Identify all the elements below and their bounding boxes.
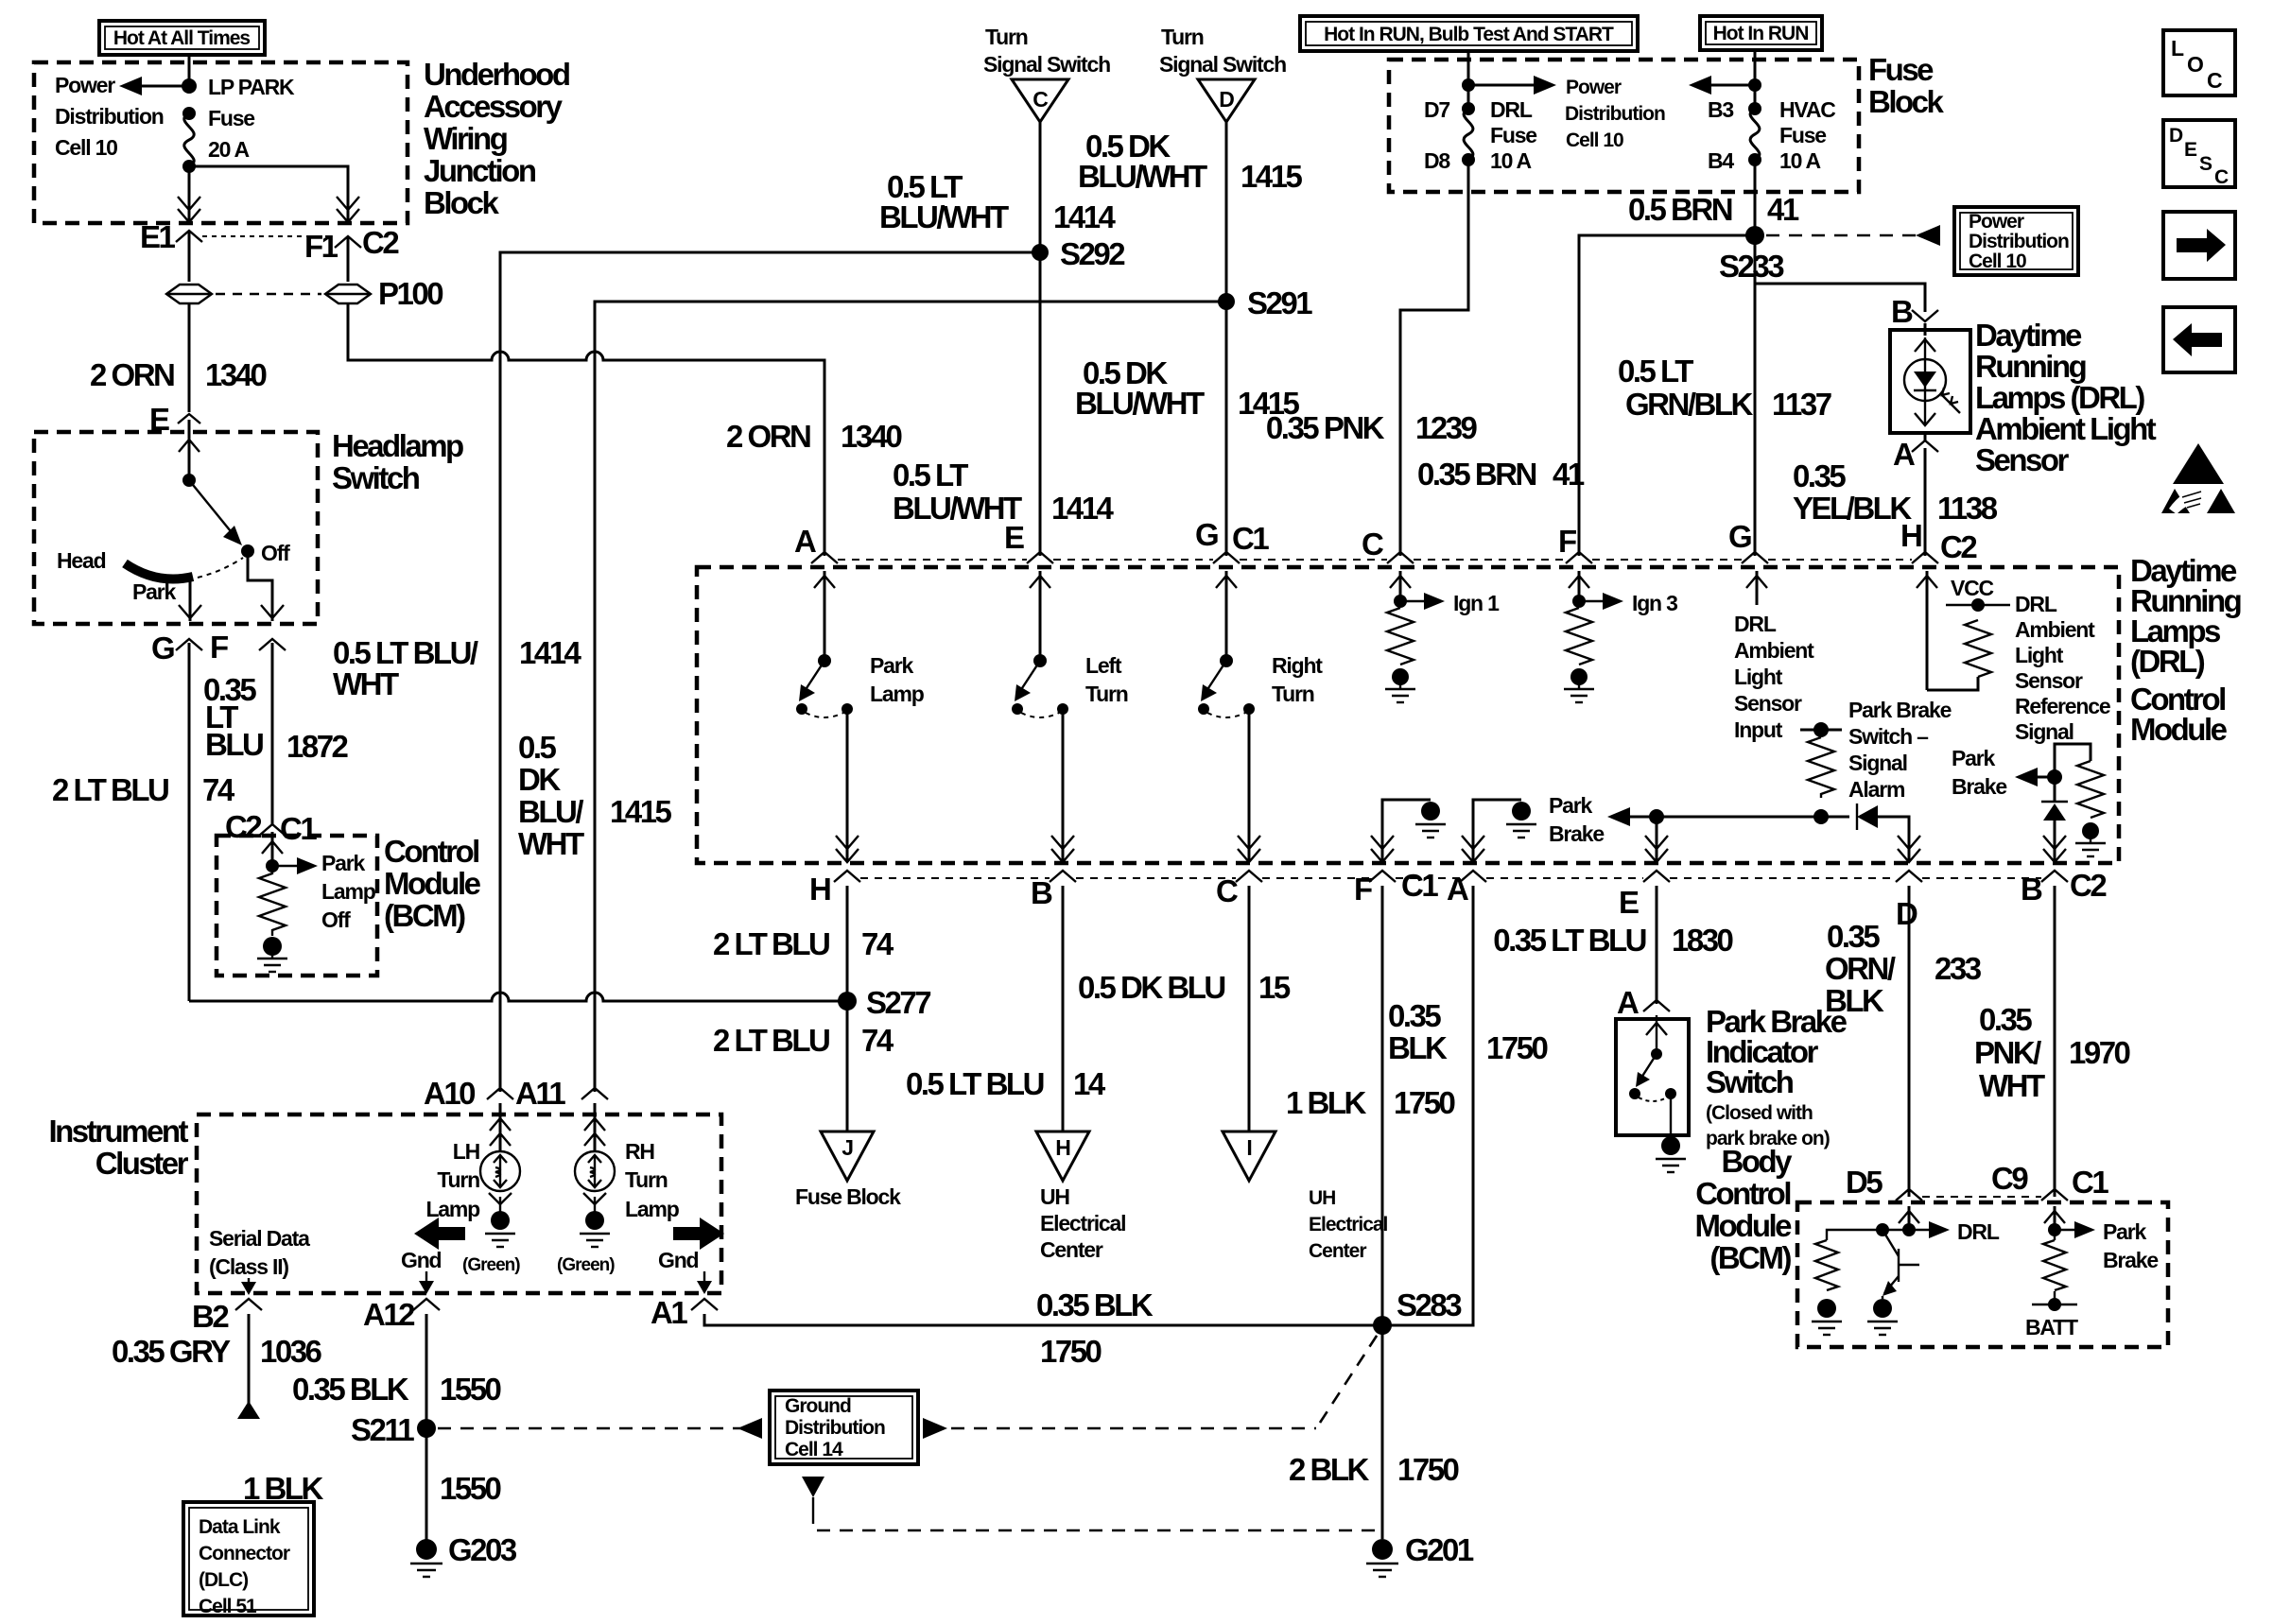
wire: A12 down to G203, 0.35 BLK 1550	[292, 1314, 501, 1540]
svg-text:Lamp: Lamp	[625, 1197, 680, 1221]
wire: Off position down to F	[248, 551, 272, 621]
svg-text:H: H	[1055, 1135, 1070, 1160]
node S283	[1373, 1287, 1462, 1335]
node: HVAC fuse feed	[1748, 78, 1761, 92]
fuse HVAC 10A B3/B4	[1708, 97, 1835, 173]
svg-text:S292: S292	[1060, 236, 1125, 271]
svg-text:G203: G203	[448, 1532, 517, 1567]
fuse block (dashed box)	[1389, 60, 1859, 192]
wire: B down to H triangle	[906, 886, 1291, 1132]
svg-text:Reference: Reference	[2015, 694, 2110, 718]
DRL control module main dashed box	[697, 567, 2119, 863]
svg-text:Park Brake: Park Brake	[1848, 698, 1952, 722]
label: Underhood Accessory Wiring Junction Block	[424, 57, 569, 220]
svg-text:DRL: DRL	[1957, 1219, 2000, 1244]
svg-text:Ign 3: Ign 3	[1632, 591, 1677, 615]
instrument cluster dashed box	[197, 1114, 721, 1293]
svg-text:1415: 1415	[610, 794, 672, 829]
svg-text:1137: 1137	[1772, 387, 1831, 422]
label: Gnd (A12) with arrow	[401, 1248, 442, 1294]
wire: arrow to Power Distribution (right)	[1468, 76, 1556, 95]
svg-text:Lamp: Lamp	[321, 879, 376, 904]
wire: D down to G connector	[1225, 122, 1228, 556]
svg-text:Signal Switch: Signal Switch	[983, 52, 1110, 77]
svg-text:(DLC): (DLC)	[199, 1569, 248, 1591]
fuse LP PARK 20A	[182, 75, 295, 173]
svg-text:DRL: DRL	[1734, 612, 1777, 636]
resistor: park lamp off pull-down	[259, 866, 286, 936]
svg-text:Power: Power	[1969, 211, 2024, 233]
svg-text:DRL: DRL	[2015, 592, 2057, 616]
park brake switch signal alarm resistor	[1800, 698, 1952, 824]
wire: S233 branch right to sensor B	[1755, 284, 1925, 312]
wire: D down to D5, 0.35 ORN/BLK 233	[1825, 886, 1982, 1197]
RH turn lamp bulb	[575, 1139, 680, 1221]
svg-text:A12: A12	[363, 1297, 415, 1332]
wire: S233 left branch down to F (0.35 BRN 41)	[1417, 235, 1755, 556]
svg-text:B2: B2	[192, 1299, 229, 1334]
svg-text:WHT: WHT	[1979, 1068, 2045, 1103]
svg-text:0.5 LT: 0.5 LT	[893, 458, 968, 492]
node S292	[1032, 236, 1125, 271]
wire label: 0.5 DK BLU/WHT 1415 (upper)	[1078, 129, 1303, 194]
svg-text:Underhood: Underhood	[424, 57, 569, 92]
svg-text:E: E	[1004, 520, 1024, 555]
svg-text:Cell 51: Cell 51	[199, 1596, 257, 1617]
svg-text:HVAC: HVAC	[1779, 97, 1835, 122]
connector B of ambient light sensor	[1891, 294, 1938, 329]
svg-text:O: O	[2187, 52, 2203, 77]
wire: G down, 2 LT BLU 74, to S277 line	[52, 643, 235, 1001]
wire label: 0.35 LT BLU 1872 on F wire	[203, 643, 349, 824]
svg-text:C2: C2	[2070, 868, 2107, 903]
svg-text:Turn: Turn	[985, 25, 1028, 49]
svg-text:C: C	[2214, 166, 2229, 188]
svg-text:Signal: Signal	[2015, 719, 2073, 744]
svg-text:PNK/: PNK/	[1974, 1035, 2041, 1070]
svg-text:Power: Power	[55, 73, 115, 97]
wire: E down to park brake indicator switch A, 0.35 LT BLU 1830	[1493, 886, 1732, 1004]
wire: B down to C1, 0.35 PNK/WHT 1970	[1974, 886, 2130, 1197]
svg-text:0.5 DK BLU: 0.5 DK BLU	[1078, 970, 1224, 1005]
BCM DRL pull-down resistor	[1812, 1230, 1909, 1335]
svg-text:S283: S283	[1397, 1287, 1462, 1322]
wire: dashed S211 to ground distribution	[438, 1418, 762, 1439]
connector C2/C1 at BCM	[225, 809, 317, 846]
svg-text:Module: Module	[2130, 712, 2228, 747]
svg-text:BLU/WHT: BLU/WHT	[1078, 159, 1207, 194]
headlamp switch (dashed box)	[34, 432, 318, 624]
off-page triangle J Fuse Block	[795, 1132, 901, 1209]
wire: A down then left to S283, 0.35 BLK 1750	[1382, 886, 1548, 1325]
DRL ambient light sensor input stub	[1734, 571, 1814, 742]
svg-text:A: A	[794, 524, 816, 559]
svg-text:Turn: Turn	[437, 1167, 479, 1192]
label: Power Distribution Cell 10 (fuse block)	[1565, 77, 1665, 151]
svg-text:(BCM): (BCM)	[1709, 1240, 1791, 1275]
svg-text:C1: C1	[1232, 521, 1269, 556]
Ign 3 pull-up resistor	[1564, 571, 1677, 702]
svg-text:F: F	[1558, 524, 1576, 559]
svg-text:Data Link: Data Link	[199, 1516, 281, 1538]
wire label: 0.5 DK BLU/WHT 1415 vertical stack on 629 wire	[518, 730, 672, 861]
svg-text:C1: C1	[2072, 1165, 2108, 1200]
node S233	[1719, 226, 1784, 284]
wire: 1415 branch to A11 connector	[515, 1076, 608, 1111]
wire label: 0.5 LT BLU/WHT 1414 (upper)	[879, 169, 1117, 234]
svg-text:Running: Running	[1975, 349, 2086, 384]
ground: LH turn lamp (Green)	[462, 1193, 520, 1275]
right arrow reference box	[2163, 212, 2235, 279]
svg-text:14: 14	[1073, 1066, 1106, 1101]
wire label: 0.5 DK BLU/WHT 1415 (below S291)	[1075, 355, 1300, 421]
svg-text:A: A	[1893, 437, 1915, 472]
svg-text:1340: 1340	[205, 357, 267, 392]
svg-text:BLU/: BLU/	[518, 794, 583, 829]
BCM connector row D5 / C9 C1	[1846, 1161, 2108, 1201]
wire: arrow to Power Distribution Cell 10	[55, 73, 189, 160]
ground: BCM park lamp	[257, 937, 287, 972]
wire: F1 down then right (to S292 line)	[348, 303, 492, 360]
DESC reference box	[2163, 120, 2235, 188]
wire: S292 left then down (1414 branch)	[500, 252, 1040, 1092]
svg-text:15: 15	[1258, 970, 1291, 1005]
svg-text:Fuse Block: Fuse Block	[795, 1184, 901, 1209]
label: Serial Data (Class II) with arrow	[209, 1226, 310, 1295]
svg-text:0.5 LT: 0.5 LT	[1618, 354, 1693, 389]
connector P100 (left half)	[166, 285, 212, 303]
svg-text:0.5 LT BLU: 0.5 LT BLU	[906, 1066, 1044, 1101]
svg-text:UH: UH	[1309, 1187, 1335, 1209]
svg-text:YEL/BLK: YEL/BLK	[1793, 491, 1912, 526]
label: Daytime Running Lamps (DRL) Control Module	[2130, 553, 2241, 747]
bottom connector row labels	[809, 868, 2107, 931]
svg-text:E: E	[1619, 885, 1639, 920]
switch: headlamp wiper	[182, 474, 290, 565]
right turn switch (module input G)	[1198, 571, 1323, 717]
node: splice to Power Distribution	[182, 78, 197, 94]
svg-text:(Green): (Green)	[462, 1255, 520, 1275]
wire: fuse output right then down to F1	[189, 166, 359, 222]
svg-text:Park: Park	[1549, 793, 1592, 818]
svg-text:0.5: 0.5	[518, 730, 557, 765]
svg-text:1872: 1872	[286, 729, 349, 764]
svg-text:F: F	[210, 630, 228, 665]
wire: stub into DRL fuse	[1467, 51, 1470, 109]
svg-text:2 BLK: 2 BLK	[1289, 1452, 1370, 1487]
svg-text:P100: P100	[378, 276, 442, 311]
svg-text:Turn: Turn	[1161, 25, 1204, 49]
svg-text:Turn: Turn	[1085, 682, 1128, 706]
svg-text:BLU: BLU	[205, 727, 263, 762]
svg-text:74: 74	[861, 926, 894, 961]
svg-text:G: G	[151, 631, 174, 665]
left turn switch (module input E)	[1012, 571, 1128, 717]
svg-text:BLK: BLK	[1825, 983, 1884, 1018]
svg-text:10 A: 10 A	[1490, 148, 1532, 173]
svg-text:Sensor: Sensor	[1975, 442, 2070, 477]
BCM DRL driver transistor	[1867, 1223, 1919, 1335]
svg-text:Headlamp: Headlamp	[332, 428, 463, 463]
wire label: 1 BLK 1550	[243, 1471, 501, 1506]
wire: HVAC fuse down to S233, 0.5 BRN 41	[1628, 160, 1799, 235]
wire label: 0.5 LT BLU/WHT 1414 on 529 wire	[333, 635, 582, 701]
svg-text:ORN/: ORN/	[1825, 951, 1896, 986]
svg-text:1750: 1750	[1394, 1085, 1455, 1120]
svg-text:A11: A11	[515, 1076, 565, 1111]
svg-text:H: H	[1900, 518, 1921, 553]
module ground output A	[1462, 800, 1536, 862]
LOC reference box	[2163, 30, 2235, 95]
svg-text:20 A: 20 A	[208, 137, 250, 162]
label: Body Control Module (BCM)	[1695, 1144, 1794, 1275]
svg-text:A10: A10	[424, 1076, 475, 1111]
wire: S283 down to G201, 2 BLK 1750	[1289, 1325, 1459, 1539]
svg-text:Instrument: Instrument	[48, 1114, 188, 1149]
svg-text:C2: C2	[225, 809, 262, 844]
wire label: 0.5 LT BLU/WHT 1414 (lower, on C wire)	[893, 458, 1115, 526]
svg-text:B: B	[1031, 875, 1052, 910]
svg-text:(BCM): (BCM)	[384, 898, 465, 933]
svg-text:Light: Light	[2015, 643, 2064, 667]
svg-text:C: C	[1216, 873, 1238, 908]
svg-text:C: C	[2207, 68, 2222, 93]
svg-text:233: 233	[1935, 951, 1982, 986]
svg-text:LP PARK: LP PARK	[208, 75, 295, 99]
svg-text:DRL: DRL	[1490, 97, 1533, 122]
svg-text:Turn: Turn	[1272, 682, 1314, 706]
sensor internals: photodiode	[1904, 337, 1960, 425]
svg-text:Junction: Junction	[424, 153, 536, 188]
svg-text:Off: Off	[261, 541, 290, 565]
svg-text:Fuse: Fuse	[1779, 123, 1826, 147]
node S277	[838, 985, 930, 1020]
svg-text:E: E	[2184, 139, 2197, 161]
BCM DRL input D5	[1899, 1206, 2000, 1244]
connector E of headlamp switch	[149, 402, 200, 437]
svg-text:F: F	[1354, 872, 1372, 907]
svg-text:S277: S277	[866, 985, 930, 1020]
svg-text:RH: RH	[625, 1139, 654, 1164]
svg-text:0.35 PNK: 0.35 PNK	[1266, 410, 1385, 445]
svg-text:H: H	[809, 872, 830, 907]
right arrow symbol (RH indicator)	[673, 1218, 724, 1250]
connector E1	[140, 219, 202, 282]
svg-text:2 LT BLU: 2 LT BLU	[713, 926, 829, 961]
ground G201	[1366, 1532, 1474, 1577]
svg-text:E1: E1	[140, 219, 176, 254]
svg-text:1239: 1239	[1415, 410, 1478, 445]
left arrow symbol (LH indicator)	[414, 1218, 465, 1250]
svg-text:VCC: VCC	[1951, 576, 1994, 600]
svg-text:74: 74	[861, 1023, 894, 1058]
svg-text:Signal: Signal	[1848, 751, 1907, 775]
svg-text:G201: G201	[1405, 1532, 1474, 1567]
svg-text:C1: C1	[280, 811, 317, 846]
wire: park lamp switch down to H	[836, 709, 859, 862]
svg-text:Sensor: Sensor	[1734, 691, 1802, 716]
bottom connector row thin dashed tie	[860, 877, 2041, 879]
svg-text:41: 41	[1553, 457, 1585, 492]
switch: dashed travel arc	[198, 558, 243, 578]
svg-text:Signal Switch: Signal Switch	[1159, 52, 1286, 77]
label box "Hot At All Times"	[99, 21, 265, 55]
svg-text:(DRL): (DRL)	[2130, 644, 2205, 679]
svg-text:C: C	[1362, 527, 1383, 561]
connector P100 (right half)	[325, 276, 442, 311]
svg-text:Block: Block	[1868, 84, 1945, 119]
svg-text:Fuse: Fuse	[1490, 123, 1536, 147]
label: Park Brake Indicator Switch	[1706, 1004, 1848, 1149]
svg-text:B3: B3	[1708, 97, 1733, 122]
svg-text:C9: C9	[1991, 1161, 2028, 1196]
label: Control Module (BCM)	[384, 834, 481, 933]
svg-text:0.35 GRY: 0.35 GRY	[112, 1334, 231, 1369]
BCM dashed box	[1797, 1202, 2168, 1347]
svg-text:Block: Block	[424, 185, 500, 220]
svg-text:(Closed with: (Closed with	[1706, 1102, 1813, 1124]
wire: A10 into LH turn lamp	[490, 1103, 511, 1151]
off-page triangle C	[1012, 79, 1068, 122]
svg-text:Turn: Turn	[625, 1167, 668, 1192]
wire: dashed tie between P100 halves	[216, 293, 321, 296]
wire: E into switch common	[179, 420, 200, 480]
park lamp switch (module input A)	[796, 571, 925, 717]
ground G203	[410, 1532, 517, 1577]
svg-text:1830: 1830	[1672, 923, 1733, 958]
svg-text:Ambient: Ambient	[1734, 638, 1814, 663]
off-page triangle D	[1198, 79, 1255, 122]
svg-text:Park: Park	[870, 653, 913, 678]
svg-text:Cluster: Cluster	[95, 1146, 189, 1181]
svg-text:1414: 1414	[1053, 199, 1117, 234]
svg-text:0.35 BLK: 0.35 BLK	[1036, 1287, 1154, 1322]
node S291	[1218, 285, 1312, 320]
svg-text:Connector: Connector	[199, 1543, 290, 1564]
park brake indicator switch box	[1616, 1019, 1689, 1135]
svg-text:1340: 1340	[841, 419, 902, 454]
svg-text:1750: 1750	[1040, 1334, 1102, 1369]
svg-text:Switch: Switch	[332, 460, 420, 495]
wire: F down to S283, 1 BLK 1750	[1286, 886, 1455, 1325]
BCM park brake pull-up to BATT	[2025, 1230, 2078, 1339]
svg-text:Brake: Brake	[1549, 821, 1604, 846]
wire: dashed to Power Distribution Cell 10 box	[1766, 225, 1940, 246]
svg-text:10 A: 10 A	[1779, 148, 1821, 173]
svg-text:S291: S291	[1247, 285, 1312, 320]
svg-text:S: S	[2199, 153, 2212, 175]
svg-text:BLU/WHT: BLU/WHT	[879, 199, 1009, 234]
svg-text:Distribution: Distribution	[55, 104, 164, 129]
wire: dashed connector tie E1-F1	[202, 235, 333, 237]
svg-text:BLU/WHT: BLU/WHT	[1075, 386, 1205, 421]
svg-text:0.35 LT BLU: 0.35 LT BLU	[1493, 923, 1645, 958]
svg-text:L: L	[2171, 36, 2184, 60]
svg-text:41: 41	[1767, 192, 1799, 227]
svg-text:74: 74	[202, 772, 235, 807]
svg-text:2 LT BLU: 2 LT BLU	[52, 772, 168, 807]
svg-text:D: D	[1219, 87, 1234, 112]
svg-text:0.5 BRN: 0.5 BRN	[1628, 192, 1732, 227]
label: DRL Ambient Light Sensor Reference Signal	[2015, 592, 2110, 744]
svg-text:Cell 14: Cell 14	[785, 1439, 843, 1460]
svg-text:Lamp: Lamp	[870, 682, 925, 706]
svg-text:2 ORN: 2 ORN	[90, 357, 174, 392]
svg-text:Distribution: Distribution	[1565, 103, 1665, 125]
svg-text:0.35 BLK: 0.35 BLK	[292, 1372, 409, 1407]
svg-text:D8: D8	[1424, 148, 1450, 173]
svg-text:Switch –: Switch –	[1848, 724, 1929, 749]
Ign 1 pull-up resistor	[1385, 571, 1500, 702]
svg-text:B: B	[1891, 294, 1913, 329]
svg-text:Control: Control	[384, 834, 478, 869]
svg-text:Power: Power	[1566, 77, 1622, 98]
wire: C down to I triangle	[1248, 886, 1251, 1132]
DRL ambient light sensor box	[1890, 323, 1970, 433]
svg-text:A: A	[1447, 872, 1468, 907]
svg-text:Input: Input	[1734, 717, 1783, 742]
svg-text:Ambient: Ambient	[2015, 617, 2095, 642]
svg-text:D: D	[1896, 896, 1917, 931]
svg-text:Hot In RUN, Bulb Test And STAR: Hot In RUN, Bulb Test And START	[1324, 24, 1614, 45]
wire: G wire horizontal into S277 with hops	[189, 993, 847, 1001]
wire: S291 left then down (1415 branch)	[595, 302, 1226, 1092]
svg-text:Right: Right	[1272, 653, 1323, 678]
wire: 1414 branch to A10 connector	[424, 1076, 513, 1111]
svg-text:Body: Body	[1722, 1144, 1794, 1179]
svg-text:B4: B4	[1708, 148, 1734, 173]
svg-text:Center: Center	[1040, 1237, 1103, 1262]
park brake indicator switch internals	[1629, 1015, 1686, 1172]
svg-text:Fuse: Fuse	[1868, 52, 1934, 87]
svg-text:1970: 1970	[2069, 1035, 2130, 1070]
connector A12	[363, 1297, 440, 1332]
svg-text:0.35: 0.35	[1827, 919, 1880, 954]
label: Instrument Cluster	[48, 1114, 188, 1181]
svg-text:Ground: Ground	[785, 1395, 851, 1417]
connector G	[151, 631, 202, 665]
svg-text:BLU/WHT: BLU/WHT	[893, 491, 1022, 526]
svg-text:1 BLK: 1 BLK	[243, 1471, 324, 1506]
module ground output F	[1371, 800, 1446, 862]
label box "Hot In RUN"	[1700, 16, 1822, 50]
turn signal switch C label	[983, 25, 1110, 77]
wire: 2 ORN 1340 horizontal to A with hops	[348, 352, 902, 556]
svg-text:Park: Park	[1952, 746, 1995, 770]
svg-text:F1: F1	[304, 229, 338, 264]
svg-text:Cell 10: Cell 10	[1566, 130, 1623, 151]
connector A1	[651, 1295, 718, 1330]
wire: A1 to S283, 0.35 BLK 1750	[704, 1287, 1382, 1369]
svg-text:1750: 1750	[1397, 1452, 1459, 1487]
fuse DRL 10A D7/D8	[1424, 97, 1536, 173]
wire: C1 into BCM with up arrow	[262, 832, 283, 866]
svg-text:S211: S211	[351, 1412, 414, 1447]
wire: arrow from HVAC feed pointing left	[1689, 76, 1755, 95]
svg-text:Light: Light	[1734, 665, 1783, 689]
svg-text:Park: Park	[321, 851, 365, 875]
label: Headlamp Switch	[332, 428, 463, 495]
label: Fuse Block	[1868, 52, 1945, 119]
wire: fuse output down to E1	[178, 166, 200, 222]
svg-text:Module: Module	[384, 866, 481, 901]
wire: C down to E connector	[1039, 122, 1042, 556]
wire: S233 down to G (0.5 LT GRN/BLK 1137)	[1618, 235, 1831, 556]
connector B2	[192, 1299, 262, 1334]
wire: dashed ground distribution down to G201 wire	[802, 1477, 1377, 1530]
svg-text:C2: C2	[362, 225, 399, 260]
wire: A11 into RH turn lamp	[584, 1103, 605, 1151]
